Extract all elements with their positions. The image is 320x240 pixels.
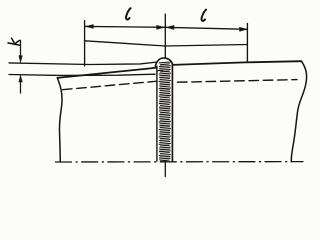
arrowhead centre left <box>157 25 164 29</box>
right shell break line <box>291 61 306 162</box>
axis centreline (dash-dot) <box>55 161 304 163</box>
weld centreline below axis <box>164 161 166 177</box>
dimension k arrow upper <box>20 41 22 57</box>
left shell break line <box>57 78 62 162</box>
extension line right (x=247.4) <box>246 23 248 62</box>
straightedge line A <box>85 41 248 46</box>
dimension k arrow lower <box>20 82 22 94</box>
label k <box>8 38 20 45</box>
extension line centre (x=165.3) <box>164 14 166 57</box>
extension line left (x=84.6) <box>84 21 86 66</box>
arrowhead centre right <box>167 25 174 29</box>
weld band left outline <box>156 66 158 161</box>
arrowhead left outward <box>86 25 94 29</box>
right shell mid dashed line <box>178 80 298 83</box>
weld hatching <box>159 62 171 161</box>
label l right <box>202 10 207 21</box>
arrowhead right outward <box>240 27 247 31</box>
weld cap <box>155 58 172 66</box>
dimension line l+l <box>85 26 247 29</box>
reference line R1 (right shell surface extended left) <box>9 62 158 65</box>
weld toe curl <box>157 69 163 72</box>
reference line R2 (left shell corner level) <box>9 74 155 75</box>
right shell top edge <box>172 61 301 65</box>
label l left <box>126 8 131 19</box>
left shell mid dashed line <box>63 81 158 90</box>
weld band right outline <box>171 64 173 161</box>
left shell top edge <box>57 68 156 78</box>
